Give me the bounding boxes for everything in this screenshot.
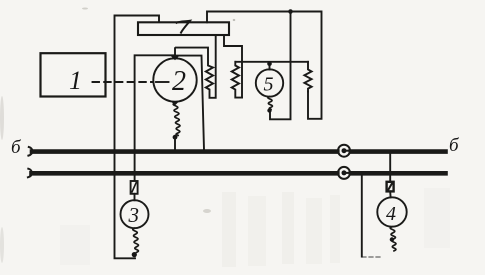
svg-text:4: 4 — [386, 203, 396, 225]
instrument 3 circle — [121, 200, 149, 228]
lower bus bar б — [32, 171, 338, 176]
label 7 on bar — [177, 21, 191, 33]
resistor R3 (zigzag x=308) — [304, 62, 311, 92]
dashed coupling line 1 to 2 — [93, 81, 153, 83]
svg-text:3: 3 — [128, 203, 140, 227]
upper bus left terminal — [28, 147, 32, 156]
regulator box 1 — [41, 53, 106, 96]
spring under machine 2 — [173, 103, 180, 136]
fuse F2 above instrument 4 (heavily inked) — [387, 182, 394, 192]
busbar 7 (rectangle) — [138, 22, 229, 35]
relay 5 top stub and junction dot — [269, 64, 271, 70]
contact dot under spring 3 — [132, 252, 137, 257]
resistor R1 (zigzag x=209) top wire from machine2 node — [176, 35, 216, 98]
contact dot under relay 5 — [267, 108, 271, 112]
spring under relay 5 — [268, 97, 273, 110]
wire left from machine2 node down through buses to fuse F1 — [135, 55, 175, 181]
wire lower bus down at x=362 to instrument 4 return — [361, 176, 363, 257]
wire vertical from top rail down to relay5 return — [270, 12, 291, 120]
machine 2 bottom blob — [171, 101, 179, 105]
wire between buses at x=390 — [389, 154, 391, 172]
stub lower bus to fuse F2 — [389, 175, 391, 181]
svg-text:5: 5 — [264, 74, 274, 96]
upper bus bar б — [32, 149, 337, 154]
breaker circle on upper bus — [338, 145, 350, 157]
relay 5 circle — [256, 69, 283, 96]
spring under instrument 4 — [390, 227, 396, 251]
lower bus left terminal — [28, 169, 32, 178]
machine 2 top junction blob — [171, 56, 180, 61]
svg-text:б: б — [11, 137, 22, 158]
instrument 4 circle — [377, 197, 406, 226]
fuse F1 above instrument 3 — [131, 181, 138, 194]
machine 2 circle — [153, 58, 196, 101]
breaker circle on lower bus — [338, 167, 350, 179]
wire spring2 dot to upper bus — [174, 138, 176, 150]
wire horizontal node line above relay 5 — [236, 61, 309, 63]
wire top-left loop (bar7 top to left long vertical down to bottom) — [115, 16, 160, 259]
svg-text:1: 1 — [69, 66, 82, 95]
wire fuse F1 to instrument 3 — [134, 194, 136, 201]
wire right from machine2 node down to upper bus — [175, 56, 204, 150]
wire fuse F2 to instrument 4 — [389, 191, 391, 197]
svg-text:2: 2 — [172, 66, 186, 97]
svg-text:б: б — [449, 135, 460, 156]
spring under instrument 3 — [133, 228, 139, 252]
junction dot under spring 2 — [173, 135, 178, 140]
machine 2 top stub — [174, 48, 176, 55]
wire bar7 bottom step to node H1 — [224, 35, 242, 98]
dash inside machine 2 — [156, 81, 169, 83]
node junction dot on top rail — [288, 9, 293, 14]
faint return wire to spring 4 — [362, 256, 382, 258]
wire bar7 top to top rail — [207, 12, 322, 119]
resistor R2 (zigzag x=235) — [232, 62, 242, 98]
